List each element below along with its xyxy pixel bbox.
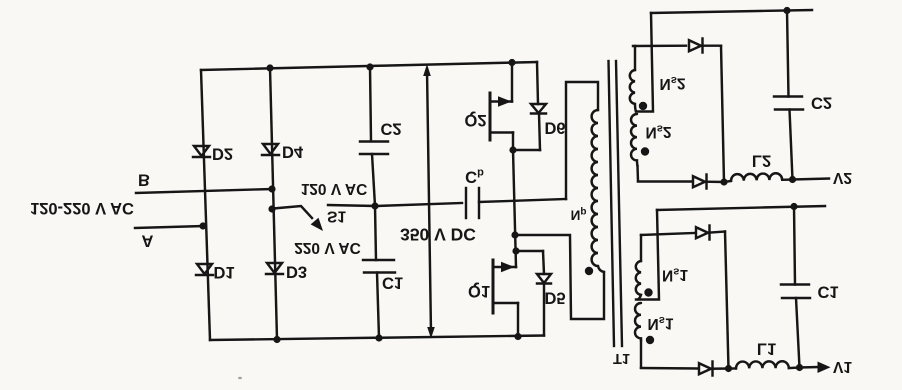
polarity dot Ns1 upper <box>644 288 652 296</box>
svg-text:120-220 V AC: 120-220 V AC <box>30 199 134 217</box>
wire AC line B <box>136 189 272 193</box>
junction top rail x370 <box>366 63 373 70</box>
wire output V1 lead <box>800 366 819 369</box>
svg-text:Ns2: Ns2 <box>646 123 672 141</box>
transformer primary winding Np <box>592 110 604 272</box>
junction C1 top <box>790 203 797 210</box>
svg-text:Q2: Q2 <box>464 111 486 129</box>
svg-text:Cb: Cb <box>465 167 484 186</box>
arrowhead switch S1 <box>311 218 323 231</box>
svg-text:D3: D3 <box>286 263 307 281</box>
transformer secondary winding Ns1 upper half <box>636 235 641 300</box>
arrowhead 350V bottom <box>427 327 435 339</box>
svg-text:S1: S1 <box>327 208 346 225</box>
svg-text:B: B <box>138 171 150 189</box>
junction half-bridge midpoint <box>509 146 516 153</box>
junction C1 bottom <box>796 364 803 371</box>
wire top DC bus rail <box>201 62 537 70</box>
diode D3 <box>266 263 283 274</box>
junction line A <box>199 222 206 229</box>
junction Ns1 rectifier output <box>725 365 732 372</box>
transistor Q2 <box>490 63 513 151</box>
svg-text:120 V AC: 120 V AC <box>301 180 368 197</box>
capacitor C1 output <box>781 207 810 368</box>
diode D5 <box>515 251 551 336</box>
svg-text:Ns1: Ns1 <box>662 266 688 284</box>
wire primary top link <box>566 82 598 199</box>
polarity dot Ns1 lower <box>646 336 654 344</box>
wire bridge branch 1 vertical (D2/D1) <box>201 70 210 340</box>
wire Ns1 upper diode branch <box>641 233 694 235</box>
diode D6 <box>513 62 546 150</box>
diode D2 <box>193 146 210 157</box>
arrowhead Q2 source <box>498 96 512 106</box>
junction capacitor midpoint <box>371 202 378 209</box>
wire bridge branch 2 vertical (D4/D3) <box>270 68 277 340</box>
capacitor Cb <box>377 188 566 218</box>
wire Ns2 upper diode branch <box>635 44 686 47</box>
arrowhead 350V top <box>423 64 431 76</box>
svg-text:C2: C2 <box>380 120 401 138</box>
paper speck <box>238 377 242 379</box>
wire bottom DC bus rail <box>210 336 544 341</box>
wire Ns2 center tap <box>636 13 653 112</box>
junction bottom rail x518 <box>514 333 521 340</box>
wire 120V tap <box>328 205 375 206</box>
svg-text:Ns1: Ns1 <box>648 314 674 332</box>
wire Ns1 right vertical <box>725 232 729 369</box>
transformer secondary winding Ns2 upper half <box>630 46 636 112</box>
wire Ns1 lower diode branch <box>641 367 697 370</box>
svg-text:T1: T1 <box>613 350 630 366</box>
junction switch pivot <box>268 205 275 212</box>
junction top rail x512 <box>508 59 515 66</box>
svg-text:D2: D2 <box>212 145 233 163</box>
transformer secondary winding Ns1 lower half <box>635 303 641 368</box>
svg-text:350 V DC: 350 V DC <box>400 225 476 245</box>
junction primary bottom <box>511 231 518 238</box>
svg-text:C2: C2 <box>811 94 832 112</box>
transformer core <box>609 61 623 346</box>
polarity dot Ns2 upper <box>639 102 647 110</box>
junction C2 top <box>783 7 790 14</box>
svg-text:A: A <box>142 232 154 250</box>
svg-text:D6: D6 <box>544 119 565 137</box>
svg-text:L2: L2 <box>752 152 771 170</box>
junction bottom rail x277 <box>273 336 280 343</box>
wire Ns2 lower diode branch <box>638 180 691 182</box>
polarity dot Ns2 lower <box>641 147 649 155</box>
diode D4 <box>262 144 279 155</box>
diode rectifier Ns1 upper <box>696 226 725 240</box>
inductor L2 <box>724 173 793 182</box>
svg-text:Ns2: Ns2 <box>660 74 686 92</box>
switch S1 arm <box>273 206 312 218</box>
diode rectifier Ns1 lower <box>699 362 729 376</box>
wire half-bridge midpoint vertical <box>513 150 516 267</box>
junction bottom rail x379 <box>375 334 382 341</box>
arrowhead Q1 source <box>501 262 515 272</box>
inductor L1 <box>729 361 800 368</box>
wire AC line A <box>135 226 203 228</box>
junction Ns2 rectifier output <box>720 178 727 185</box>
junction top rail x270 <box>266 64 273 71</box>
wire Ns1 center tap <box>636 210 659 300</box>
svg-text:L1: L1 <box>757 340 776 358</box>
svg-text:C1: C1 <box>817 283 838 301</box>
svg-text:V1: V1 <box>833 358 852 375</box>
svg-text:V2: V2 <box>833 169 852 186</box>
svg-text:D4: D4 <box>282 143 304 161</box>
capacitor C2 output <box>774 11 803 180</box>
capacitor C2 doubler <box>360 67 388 206</box>
wire Ns2 right vertical <box>721 46 724 182</box>
arrowhead output V1 <box>818 362 831 374</box>
diode rectifier Ns2 upper <box>689 39 721 53</box>
svg-text:220 V AC: 220 V AC <box>294 239 361 256</box>
wire primary bottom link <box>515 235 604 319</box>
polarity dot primary <box>585 267 593 275</box>
wire output V2 lead <box>793 179 830 180</box>
junction D5 top <box>512 247 519 254</box>
junction line B <box>268 185 275 192</box>
svg-text:Q1: Q1 <box>468 282 490 300</box>
capacitor C1 doubler <box>363 206 395 338</box>
svg-text:D5: D5 <box>544 289 565 307</box>
svg-text:C1: C1 <box>382 274 403 292</box>
diode rectifier Ns2 lower <box>693 175 724 189</box>
diode D1 <box>196 264 213 275</box>
wire secondary top output rail V2 <box>651 10 812 13</box>
junction C2 bottom <box>789 176 796 183</box>
svg-text:D1: D1 <box>213 263 234 281</box>
measurement arrow 350 V DC <box>427 70 431 333</box>
svg-text:Np: Np <box>571 207 587 223</box>
wire secondary lower output rail V1 <box>657 206 825 210</box>
transistor Q1 <box>493 260 518 337</box>
transformer secondary winding Ns2 lower half <box>631 114 638 181</box>
